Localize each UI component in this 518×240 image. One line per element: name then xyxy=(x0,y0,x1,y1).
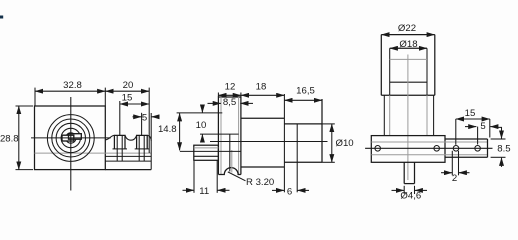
bottom pin right xyxy=(414,162,416,183)
dim 8.5 bottom arrow xyxy=(501,158,503,167)
strip bottom line xyxy=(105,169,151,171)
strip top xyxy=(445,138,488,140)
curve lug2 to strip edge xyxy=(147,135,151,140)
svg-text:15: 15 xyxy=(465,108,476,119)
svg-text:10: 10 xyxy=(196,120,207,131)
neck left edge xyxy=(383,95,385,135)
nut top edge / dim line xyxy=(381,34,435,36)
dim 11 right arrow xyxy=(217,189,229,191)
lug 1 inner right xyxy=(121,135,123,161)
barrel ring line xyxy=(296,124,298,192)
dim 20 right extension xyxy=(148,88,150,153)
dim 2 left arrow xyxy=(441,172,452,174)
dim 32.8 line xyxy=(35,90,105,92)
horizontal centerline xyxy=(31,137,111,139)
vertical centerline xyxy=(407,55,409,181)
dim 5a left arrow xyxy=(133,116,142,118)
dim 15 left extension xyxy=(119,101,121,135)
dim 14.8 line xyxy=(179,113,181,150)
hole 1 xyxy=(375,146,381,152)
bushing top xyxy=(241,117,285,119)
dim Ø10 bottom extension xyxy=(322,161,335,163)
barrel face xyxy=(321,99,323,162)
dim 5a left extension xyxy=(141,113,143,135)
lug 2 shoulder xyxy=(135,148,150,150)
slot right rectangle xyxy=(69,134,82,140)
dim 32.8 right extension xyxy=(104,88,106,106)
base plate xyxy=(371,136,445,163)
dim 15 right extension xyxy=(489,119,491,138)
svg-text:32.8: 32.8 xyxy=(63,80,82,91)
flange inner left xyxy=(220,97,222,175)
plate gray line upper xyxy=(371,141,487,143)
strip right edge xyxy=(150,113,152,170)
dim 20 line xyxy=(105,90,149,92)
dim Ø4,6 right arrow xyxy=(415,189,427,191)
strip top line xyxy=(105,152,151,154)
hole 4 xyxy=(475,146,481,152)
dim Ø10 top extension xyxy=(322,123,335,125)
lug 1 shoulder xyxy=(113,148,128,150)
svg-text:20: 20 xyxy=(123,80,134,91)
dim 6 right arrow xyxy=(297,189,309,191)
svg-text:6: 6 xyxy=(287,186,292,197)
dim 6 left arrow xyxy=(272,189,284,191)
dim 15 line xyxy=(456,118,490,120)
lug 2 inner right xyxy=(143,135,145,161)
svg-text:R 3.20: R 3.20 xyxy=(246,177,274,188)
dim 2 right arrow xyxy=(459,172,470,174)
strip bottom xyxy=(445,156,488,158)
terminal block xyxy=(194,145,219,160)
svg-text:8.5: 8.5 xyxy=(497,144,510,155)
dim 2 left extension xyxy=(451,151,453,176)
dim 2 right extension xyxy=(458,151,460,176)
dim Ø4,6 left arrow xyxy=(392,189,405,191)
svg-text:Ø22: Ø22 xyxy=(398,23,416,34)
terminal block gray line xyxy=(194,147,219,149)
bushing bottom xyxy=(241,166,285,168)
dim Ø4,6 left extension xyxy=(403,186,405,194)
svg-text:5: 5 xyxy=(480,121,485,132)
nut bottom edge xyxy=(381,94,435,96)
dim 18 line xyxy=(241,94,285,96)
concentric circle r9.9 xyxy=(61,128,80,147)
strip line 2 xyxy=(105,155,151,157)
flange box outer xyxy=(218,97,241,175)
internal reference line y134 xyxy=(200,133,239,135)
barrel top edge / dim line xyxy=(390,47,427,49)
plate gray line lower xyxy=(371,154,487,156)
dim 28.8 bottom extension xyxy=(16,169,34,171)
svg-text:Ø10: Ø10 xyxy=(336,138,354,149)
svg-text:5: 5 xyxy=(142,112,147,123)
dim 8.5 top ext xyxy=(491,138,506,140)
terminal lug plate line xyxy=(180,150,241,152)
barrel right line xyxy=(426,48,428,95)
dim 12 extensions xyxy=(217,93,219,98)
slot left rectangle xyxy=(62,135,74,141)
internal horizontal line of square xyxy=(35,152,106,154)
dim 16,5 line xyxy=(284,99,322,101)
svg-text:12: 12 xyxy=(225,81,236,92)
dim 11 left extension xyxy=(193,161,195,193)
strip line 3 xyxy=(105,160,151,162)
svg-text:14.8: 14.8 xyxy=(158,124,177,135)
body square outline xyxy=(35,106,106,170)
lug 1 inner left xyxy=(116,135,118,161)
hole row centerline xyxy=(365,147,492,149)
svg-text:28.8: 28.8 xyxy=(0,134,19,145)
terminal block lower line xyxy=(194,155,219,157)
svg-text:Ø4,6: Ø4,6 xyxy=(400,191,421,202)
center pin line xyxy=(229,134,231,171)
scan speck top-left xyxy=(0,16,3,19)
dim 10 bottom arrow xyxy=(201,134,203,142)
barrel bottom xyxy=(284,161,322,163)
flange inner right xyxy=(238,97,240,175)
dim 8.5 bottom ext xyxy=(491,156,506,158)
neck right edge xyxy=(433,95,435,135)
dim 11 right extension xyxy=(216,160,218,193)
dim Ø10 line xyxy=(331,124,333,162)
vertical centerline xyxy=(70,97,72,191)
nut right edge xyxy=(434,35,436,96)
dim 28.8 top extension xyxy=(16,105,34,107)
dim Ø4,6 right extension xyxy=(414,186,416,194)
barrel left line xyxy=(389,48,391,95)
dim 8,5 left arrow xyxy=(208,102,221,104)
barrel gray line xyxy=(390,58,427,60)
dim 5b right arrow xyxy=(490,126,496,128)
strip right edge xyxy=(487,139,489,157)
curve square to lug1 xyxy=(105,135,114,139)
flange bottom with R3.2 arc xyxy=(218,168,241,175)
concentric circle r18.8 xyxy=(52,119,90,157)
radius leader line xyxy=(228,172,246,181)
barrel inner step line xyxy=(390,81,427,83)
dim 12 line xyxy=(218,94,241,96)
step edge vertical xyxy=(283,94,285,192)
dim 11 left arrow xyxy=(183,189,195,191)
slot silhouette xyxy=(62,134,81,141)
inner circle r5.7 xyxy=(66,133,76,143)
dim 28.8 line xyxy=(18,106,20,170)
concentric circle r22.8 xyxy=(47,115,94,162)
dim 5a right arrow xyxy=(151,116,159,118)
concentric circle r14.5 xyxy=(56,123,85,152)
center pin gray line xyxy=(231,150,233,173)
svg-text:11: 11 xyxy=(199,186,209,197)
dim 10 top arrow xyxy=(201,105,203,112)
dim 8,5 right arrow xyxy=(240,102,253,104)
dim 8.5 top arrow xyxy=(495,126,501,129)
axis centerline xyxy=(210,141,328,143)
svg-text:8,5: 8,5 xyxy=(223,97,236,108)
svg-text:18: 18 xyxy=(256,81,267,92)
dim 10 top extension xyxy=(177,112,223,114)
nut left edge xyxy=(380,35,382,96)
svg-text:15: 15 xyxy=(122,93,133,104)
barrel top xyxy=(284,123,322,125)
lug 2 outer xyxy=(137,135,148,149)
hole 3 xyxy=(453,146,459,152)
bottom pin left xyxy=(403,162,405,183)
lug 1 outer xyxy=(114,135,125,149)
curve between lugs xyxy=(125,135,137,140)
dim 5b left extension xyxy=(477,127,479,145)
dim 32.8 left extension xyxy=(34,88,36,106)
lug 2 inner left xyxy=(138,135,140,161)
hole 2 xyxy=(434,146,440,152)
bottom pin cap xyxy=(404,183,414,185)
dim 5b left arrow xyxy=(465,126,476,128)
dim 15 left extension xyxy=(455,119,457,145)
svg-text:16,5: 16,5 xyxy=(296,86,315,97)
dim 15 line xyxy=(120,103,149,105)
